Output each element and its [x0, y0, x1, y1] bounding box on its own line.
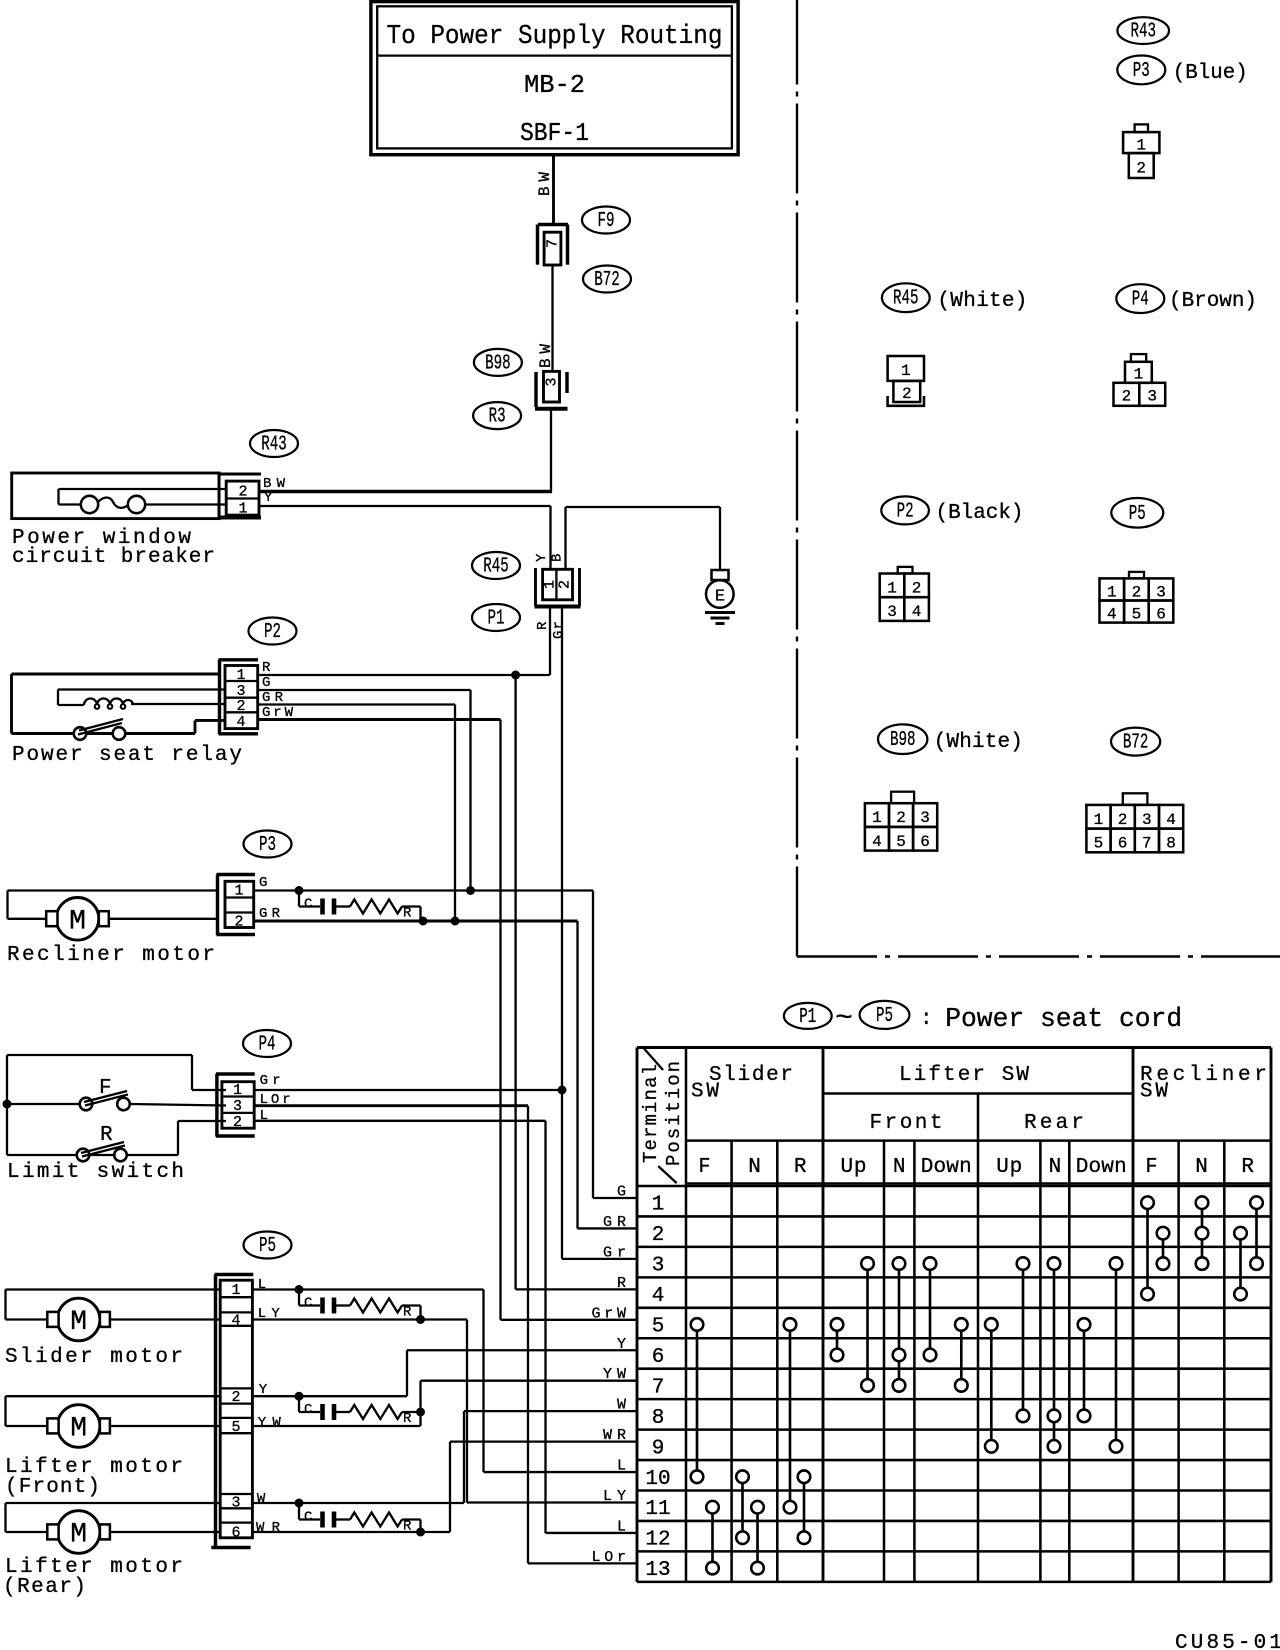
svg-text:13: 13 [645, 1559, 670, 1582]
svg-text:6: 6 [920, 833, 930, 851]
svg-text:R43: R43 [1130, 21, 1156, 44]
svg-text:(Rear): (Rear) [3, 1576, 86, 1599]
svg-text:Slider: Slider [709, 1064, 793, 1087]
svg-text:R3: R3 [489, 406, 506, 429]
svg-text:Gr: Gr [551, 621, 567, 639]
svg-text:2: 2 [1136, 160, 1146, 178]
svg-text:1: 1 [887, 580, 897, 598]
svg-text:(Black): (Black) [936, 502, 1024, 525]
svg-text:MB-2: MB-2 [524, 70, 585, 100]
svg-text:GrW: GrW [592, 1305, 627, 1322]
svg-text:Y: Y [617, 1336, 626, 1353]
svg-text:12: 12 [645, 1529, 670, 1552]
svg-text:Terminal: Terminal [640, 1064, 662, 1163]
svg-text:4: 4 [1107, 606, 1117, 624]
svg-text:2: 2 [557, 580, 574, 589]
svg-text:R: R [100, 1124, 113, 1147]
svg-text:3: 3 [1142, 811, 1152, 829]
svg-text:B: B [550, 554, 566, 562]
svg-text:F: F [1146, 1156, 1158, 1179]
svg-text:E: E [715, 588, 725, 607]
svg-text:G: G [617, 1184, 626, 1201]
svg-text:7: 7 [652, 1376, 665, 1399]
svg-text:Y: Y [534, 553, 550, 562]
svg-text:C: C [304, 1510, 312, 1526]
svg-text:11: 11 [645, 1498, 670, 1521]
svg-text:2: 2 [238, 484, 247, 501]
svg-text:L: L [617, 1458, 626, 1475]
svg-text:L: L [617, 1518, 626, 1535]
svg-text:Lifter SW: Lifter SW [899, 1064, 1029, 1087]
svg-text:2: 2 [1122, 388, 1132, 406]
svg-text:1: 1 [1136, 137, 1146, 155]
svg-text:2: 2 [231, 1389, 240, 1406]
svg-text:R: R [403, 1519, 412, 1535]
svg-text:Up: Up [841, 1156, 867, 1179]
svg-text:7: 7 [1142, 835, 1152, 853]
svg-text:LOr: LOr [592, 1549, 627, 1566]
svg-text:B72: B72 [594, 269, 620, 292]
svg-text:1: 1 [1094, 811, 1104, 829]
svg-text:1: 1 [1107, 583, 1117, 601]
svg-text:C: C [304, 897, 312, 913]
svg-text:R45: R45 [483, 556, 509, 579]
svg-text:P5: P5 [876, 1005, 893, 1028]
svg-text:P4: P4 [1132, 289, 1149, 312]
svg-text:R: R [403, 1305, 412, 1321]
svg-text:3: 3 [887, 603, 897, 621]
svg-text:P5: P5 [1129, 503, 1146, 526]
svg-text:Up: Up [996, 1156, 1022, 1179]
svg-text:Power seat relay: Power seat relay [12, 744, 242, 767]
svg-text:2: 2 [1118, 811, 1128, 829]
svg-text:R: R [262, 660, 271, 676]
svg-text:Power seat cord: Power seat cord [945, 1005, 1182, 1035]
svg-text:~: ~ [835, 1002, 853, 1036]
svg-text:4: 4 [872, 833, 882, 851]
svg-text:(Brown): (Brown) [1169, 290, 1257, 313]
svg-text:3: 3 [544, 377, 561, 386]
svg-text:2: 2 [902, 385, 912, 403]
svg-text:Down: Down [1076, 1156, 1127, 1179]
svg-text:N: N [1049, 1156, 1062, 1179]
svg-text:SBF-1: SBF-1 [520, 118, 589, 148]
svg-text:B98: B98 [890, 729, 916, 752]
svg-text:1: 1 [234, 883, 243, 900]
svg-text:9: 9 [652, 1437, 665, 1460]
svg-text:W: W [617, 1397, 626, 1414]
svg-text:3: 3 [1147, 388, 1157, 406]
svg-text:1: 1 [1134, 366, 1144, 384]
svg-text:P3: P3 [1133, 60, 1150, 83]
svg-text:R: R [403, 1411, 412, 1427]
svg-text:6: 6 [652, 1346, 665, 1369]
svg-text:F: F [699, 1156, 711, 1179]
svg-text:P2: P2 [264, 621, 281, 644]
svg-text:(Front): (Front) [5, 1476, 100, 1499]
svg-text:F9: F9 [598, 210, 615, 233]
svg-text:2: 2 [1132, 583, 1142, 601]
svg-text:Y: Y [264, 490, 273, 506]
svg-text:2: 2 [236, 698, 245, 715]
svg-text:To Power Supply Routing: To Power Supply Routing [387, 22, 723, 52]
svg-text:4: 4 [1166, 811, 1176, 829]
svg-text:M: M [70, 1520, 87, 1551]
svg-text:(White): (White) [934, 731, 1023, 754]
svg-text:(White): (White) [937, 290, 1027, 313]
svg-text:P4: P4 [259, 1034, 276, 1057]
svg-text:8: 8 [1166, 835, 1176, 853]
svg-text:Position: Position [663, 1061, 685, 1166]
svg-text:R: R [617, 1275, 626, 1292]
svg-text:6: 6 [1118, 835, 1128, 853]
svg-text:2: 2 [652, 1224, 665, 1247]
svg-text:G: G [262, 675, 270, 691]
svg-text:5: 5 [1094, 835, 1104, 853]
svg-text:5: 5 [1132, 606, 1142, 624]
svg-text:R45: R45 [893, 288, 919, 311]
svg-text:(Blue): (Blue) [1173, 62, 1248, 85]
svg-text:8: 8 [652, 1407, 665, 1430]
svg-text:Down: Down [921, 1156, 972, 1179]
svg-text:7: 7 [545, 239, 562, 248]
svg-text:B72: B72 [1123, 732, 1149, 755]
svg-text:1: 1 [872, 809, 882, 827]
svg-text:2: 2 [912, 580, 922, 598]
svg-text:1: 1 [901, 362, 911, 380]
svg-text:1: 1 [233, 1082, 242, 1099]
svg-text::: : [920, 1008, 933, 1031]
svg-text:3: 3 [231, 1495, 240, 1512]
svg-text:2: 2 [233, 1114, 242, 1131]
svg-text:2: 2 [234, 914, 243, 931]
svg-text:1: 1 [238, 501, 247, 518]
svg-text:CU85-01: CU85-01 [1175, 1632, 1280, 1650]
svg-text:C: C [304, 1402, 312, 1418]
svg-text:P3: P3 [259, 834, 276, 857]
svg-text:4: 4 [652, 1285, 665, 1308]
svg-text:3: 3 [233, 1098, 242, 1115]
svg-text:C: C [304, 1296, 312, 1312]
svg-text:1: 1 [236, 667, 245, 684]
svg-text:5: 5 [896, 833, 906, 851]
svg-text:G: G [259, 875, 267, 891]
svg-text:P5: P5 [259, 1235, 276, 1258]
svg-text:W: W [257, 1491, 266, 1507]
svg-text:R: R [794, 1156, 807, 1179]
svg-text:6: 6 [1156, 606, 1166, 624]
svg-text:N: N [893, 1156, 906, 1179]
svg-text:R: R [403, 906, 412, 922]
svg-text:M: M [70, 1307, 87, 1338]
svg-text:N: N [748, 1156, 761, 1179]
svg-text:4: 4 [236, 714, 245, 731]
svg-text:Front: Front [870, 1112, 943, 1135]
svg-text:R43: R43 [261, 434, 287, 457]
svg-text:3: 3 [652, 1255, 665, 1278]
svg-text:P2: P2 [897, 500, 914, 523]
svg-text:P1: P1 [799, 1006, 816, 1029]
svg-text:2: 2 [896, 809, 906, 827]
svg-text:3: 3 [920, 809, 930, 827]
svg-text:4: 4 [231, 1313, 240, 1330]
svg-text:10: 10 [645, 1468, 670, 1491]
svg-text:5: 5 [231, 1419, 240, 1436]
svg-text:R: R [535, 621, 551, 630]
svg-text:5: 5 [652, 1316, 665, 1339]
svg-text:B98: B98 [485, 352, 511, 375]
svg-text:1: 1 [652, 1194, 665, 1217]
svg-text:R: R [1241, 1156, 1254, 1179]
svg-text:1: 1 [231, 1282, 240, 1299]
svg-text:N: N [1195, 1156, 1208, 1179]
svg-text:F: F [99, 1077, 112, 1100]
svg-text:6: 6 [231, 1525, 240, 1542]
svg-text:M: M [70, 1414, 87, 1445]
svg-text:circuit breaker: circuit breaker [12, 546, 215, 569]
svg-text:3: 3 [1156, 583, 1166, 601]
svg-text:M: M [69, 907, 86, 938]
svg-text:P1: P1 [488, 608, 505, 631]
svg-text:4: 4 [912, 603, 922, 621]
